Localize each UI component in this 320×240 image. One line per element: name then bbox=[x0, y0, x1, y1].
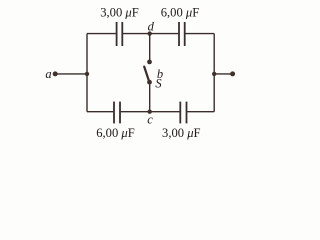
svg-text:6,00 μF: 6,00 μF bbox=[161, 6, 200, 20]
svg-text:S: S bbox=[155, 77, 162, 91]
svg-text:3,00 μF: 3,00 μF bbox=[162, 126, 201, 140]
svg-text:c: c bbox=[147, 112, 153, 126]
svg-text:d: d bbox=[148, 20, 155, 34]
svg-text:3,00 μF: 3,00 μF bbox=[100, 6, 139, 20]
svg-text:6,00 μF: 6,00 μF bbox=[96, 126, 135, 140]
svg-text:a: a bbox=[45, 67, 51, 81]
